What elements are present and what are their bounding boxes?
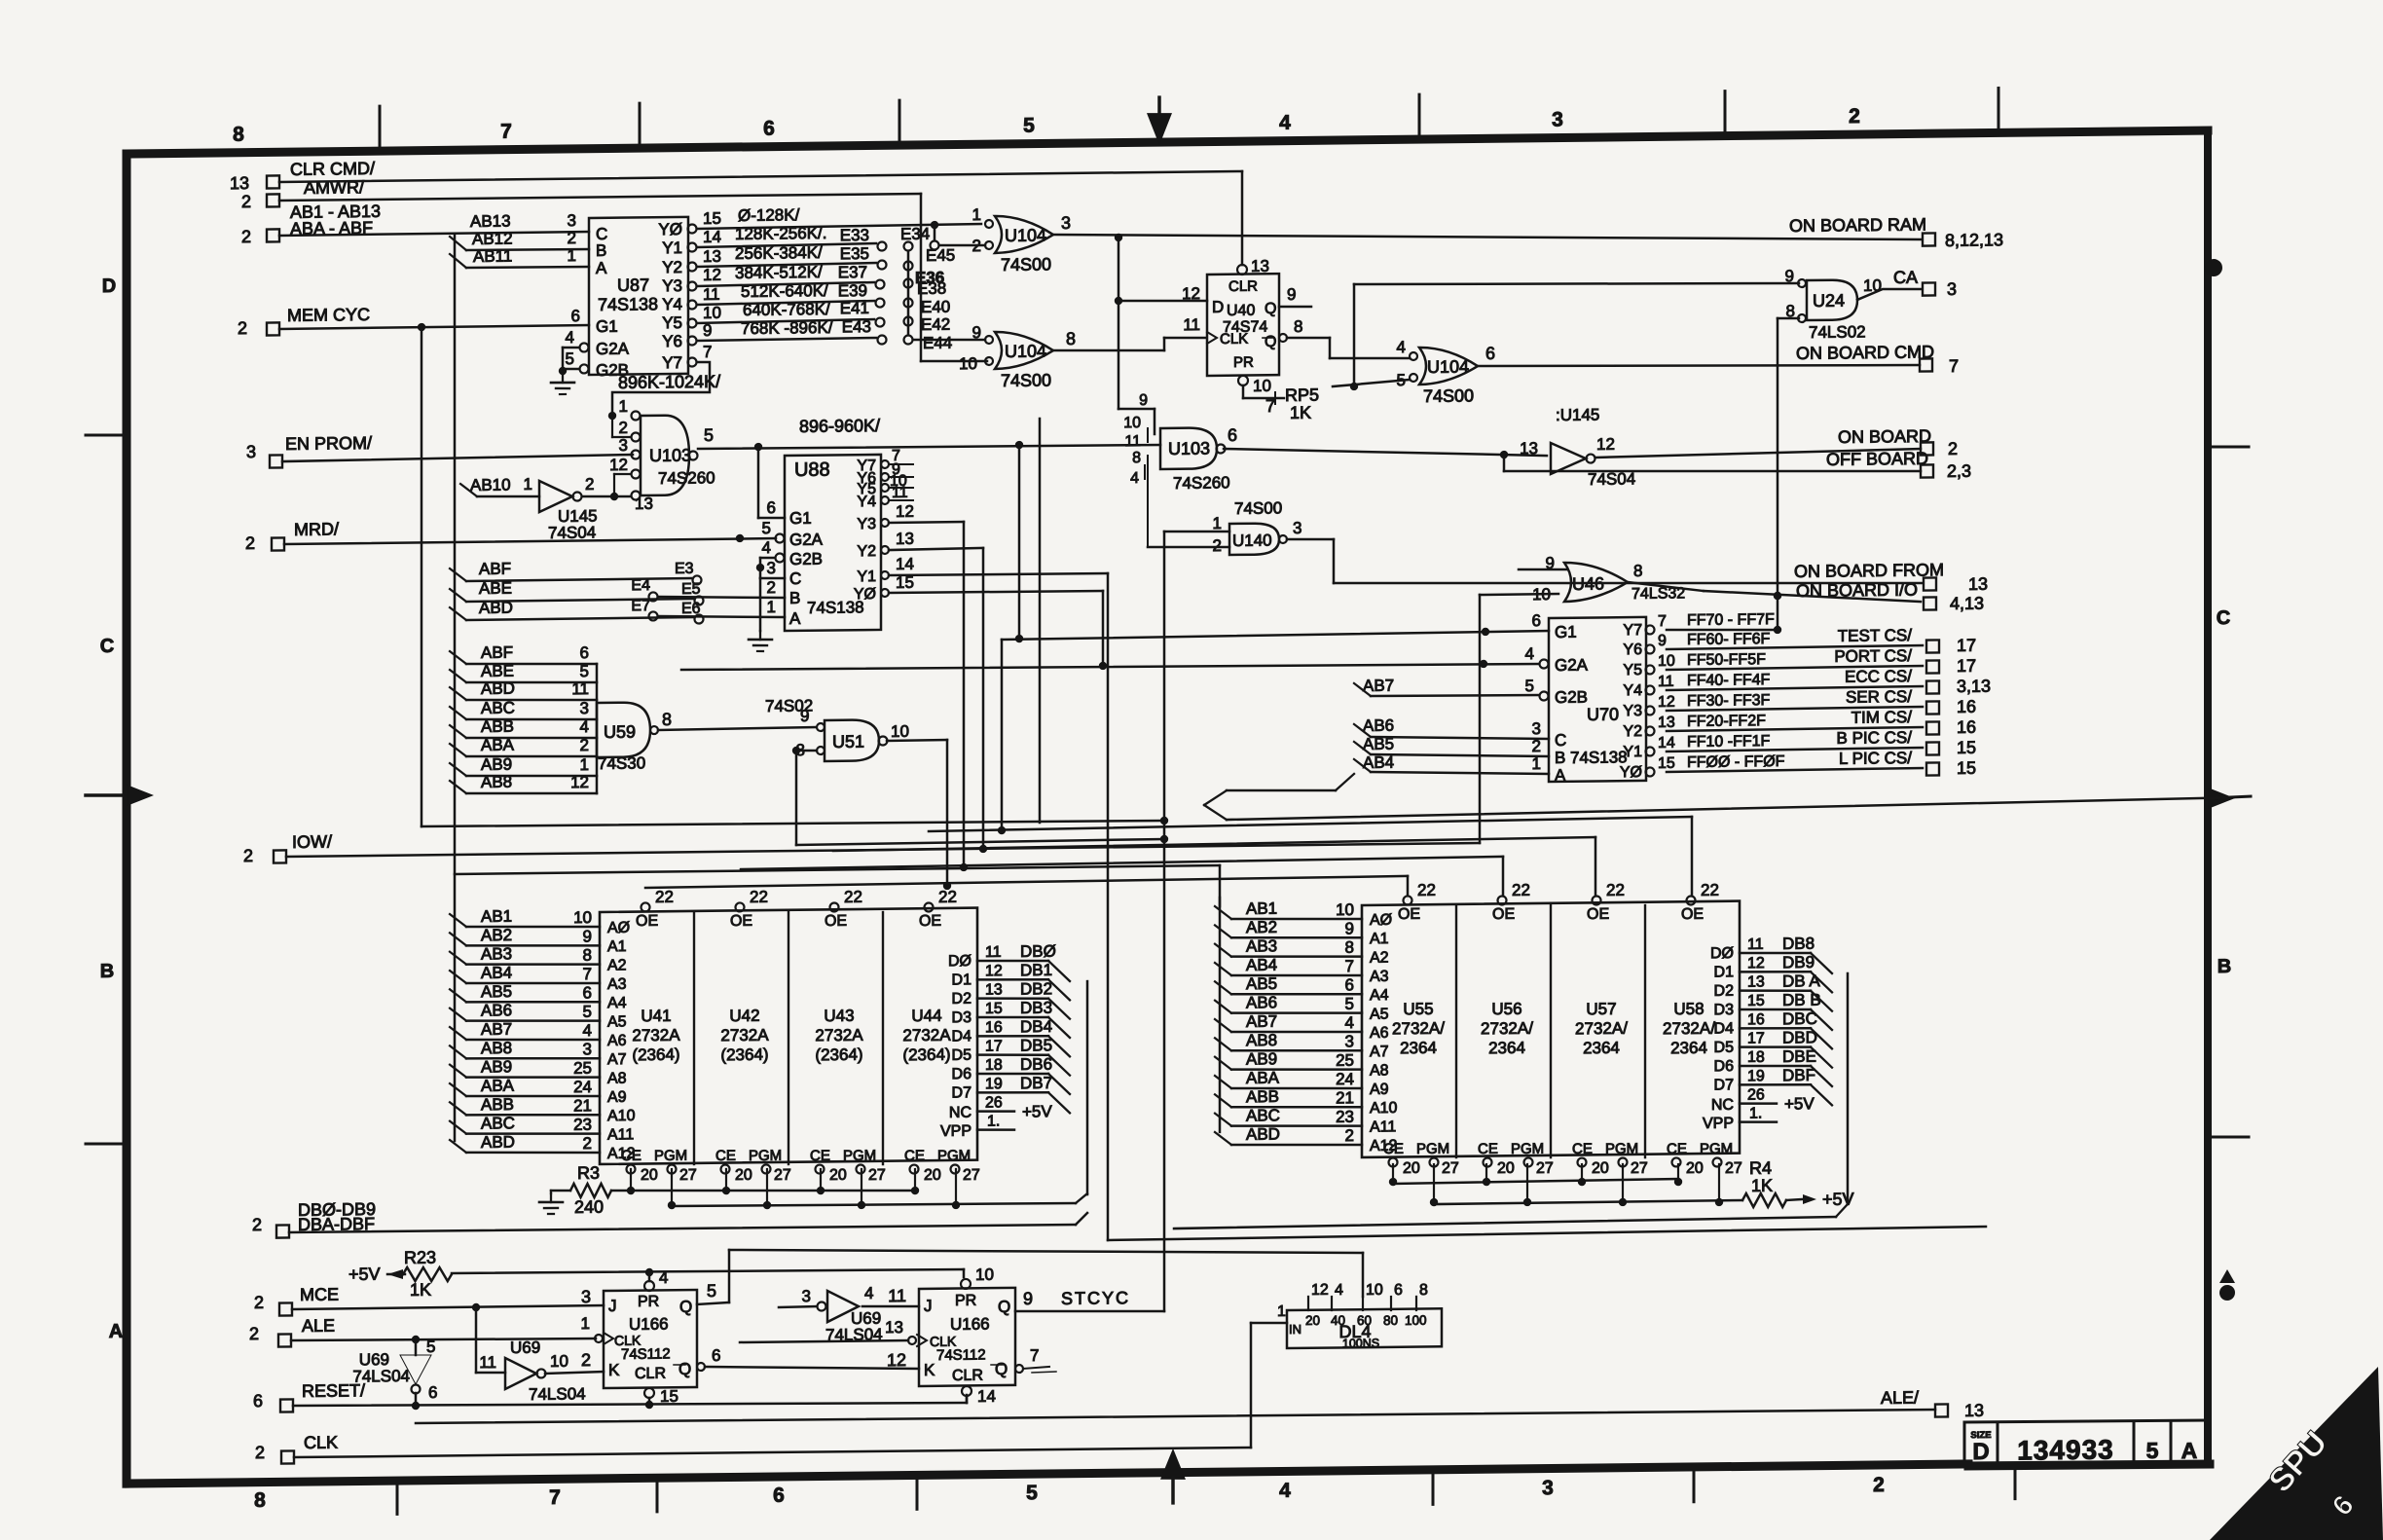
- svg-text:G1: G1: [596, 317, 618, 336]
- svg-text:4: 4: [864, 1284, 873, 1302]
- svg-text:10: 10: [550, 1352, 568, 1371]
- svg-text:B: B: [1555, 749, 1565, 767]
- svg-text:YØ: YØ: [658, 220, 682, 238]
- svg-text:26: 26: [985, 1094, 1003, 1111]
- svg-text:DØ: DØ: [948, 953, 972, 970]
- svg-text:A9: A9: [1370, 1082, 1389, 1098]
- svg-text:1K: 1K: [1751, 1176, 1773, 1195]
- svg-text:A6: A6: [1370, 1025, 1389, 1042]
- wire left bank PGM trunk: [672, 1201, 1076, 1207]
- svg-text:5: 5: [566, 349, 574, 368]
- svg-text:20: 20: [641, 1167, 658, 1184]
- wire Y1 long vertical: [889, 573, 1108, 576]
- svg-text:3: 3: [802, 1287, 811, 1305]
- title block drawing number 134933: [2133, 1421, 2136, 1464]
- svg-text:7: 7: [1345, 957, 1354, 975]
- svg-text:B PIC CS/: B PIC CS/: [1837, 728, 1913, 748]
- svg-text:640K-768K/: 640K-768K/: [743, 300, 830, 319]
- wire U166a Q to DL4 tap: [728, 1250, 731, 1302]
- svg-text:1: 1: [581, 1314, 590, 1333]
- svg-text:74S260: 74S260: [658, 468, 715, 488]
- svg-text:27: 27: [774, 1167, 791, 1184]
- svg-text:YØ: YØ: [854, 586, 876, 603]
- svg-text:20: 20: [1686, 1160, 1704, 1177]
- svg-text:1: 1: [972, 205, 981, 224]
- svg-text::U145: :U145: [1556, 406, 1599, 425]
- svg-text:10: 10: [1366, 1282, 1383, 1299]
- svg-text:512K-640K/: 512K-640K/: [741, 281, 828, 301]
- svg-text:13: 13: [1747, 973, 1765, 990]
- svg-text:13: 13: [1964, 1401, 1984, 1420]
- svg-text:6: 6: [580, 643, 589, 662]
- svg-text:ABE: ABE: [479, 579, 512, 598]
- svg-text:DB2: DB2: [1020, 979, 1052, 998]
- decoder U88 74S138: [785, 455, 881, 631]
- svg-text:DØ: DØ: [1710, 945, 1734, 962]
- svg-text:1.: 1.: [987, 1113, 1000, 1129]
- wire OE feed B: [833, 837, 1595, 851]
- svg-text:D: D: [102, 275, 116, 297]
- svg-text:12: 12: [570, 773, 589, 791]
- svg-text:D1: D1: [952, 972, 972, 988]
- svg-text:G1: G1: [1555, 623, 1577, 642]
- wire U69c input: [779, 1306, 817, 1307]
- svg-text:A: A: [789, 609, 801, 628]
- svg-text:E43: E43: [842, 317, 871, 336]
- svg-text:ON BOARD CMD: ON BOARD CMD: [1796, 342, 1934, 363]
- decoder U70 74S138: [1549, 617, 1646, 782]
- svg-text:7: 7: [583, 965, 592, 983]
- svg-text:B: B: [789, 589, 800, 607]
- svg-text:2: 2: [241, 227, 251, 246]
- jumper E45: [934, 225, 936, 240]
- svg-text:OE: OE: [1681, 906, 1704, 923]
- wire U103b out to U145b: [1224, 445, 1547, 459]
- wire U69b out to U166a K: [545, 1372, 604, 1374]
- svg-text:FF70 - FF7F: FF70 - FF7F: [1687, 611, 1775, 629]
- svg-text:10: 10: [1336, 900, 1354, 919]
- svg-text:G2A: G2A: [596, 340, 630, 358]
- svg-text:74LS04: 74LS04: [529, 1384, 586, 1404]
- svg-text:256K-384K/: 256K-384K/: [735, 243, 823, 263]
- svg-text:4: 4: [659, 1268, 668, 1287]
- wire Y0 0-128K/: [697, 224, 981, 229]
- svg-text:AB7: AB7: [481, 1020, 512, 1039]
- svg-text:U166: U166: [629, 1315, 669, 1334]
- svg-text:14: 14: [1658, 735, 1675, 752]
- svg-text:25: 25: [1336, 1051, 1354, 1070]
- svg-text:AB5: AB5: [1363, 735, 1394, 753]
- svg-text:ALE/: ALE/: [1881, 1388, 1919, 1408]
- svg-text:L PIC CS/: L PIC CS/: [1839, 749, 1912, 768]
- svg-text:6: 6: [1394, 1282, 1403, 1299]
- svg-text:14: 14: [896, 555, 914, 573]
- wire U70 G1 feed: [1002, 631, 1549, 640]
- svg-text:A11: A11: [1370, 1118, 1396, 1135]
- zone arrow right: [2208, 788, 2235, 809]
- svg-text:22: 22: [1606, 881, 1625, 899]
- svg-text:OE: OE: [1492, 906, 1515, 923]
- pin OE chip U56: [1498, 896, 1507, 904]
- svg-text:3: 3: [568, 211, 576, 230]
- svg-text:U43: U43: [824, 1007, 854, 1025]
- wire vertical to U103b pin9: [1118, 301, 1120, 409]
- svg-text:U88: U88: [794, 459, 830, 481]
- svg-text:23: 23: [573, 1116, 592, 1134]
- svg-text:PGM: PGM: [1511, 1141, 1544, 1157]
- svg-text:AB4: AB4: [1246, 956, 1277, 974]
- svg-text:A7: A7: [607, 1051, 627, 1068]
- svg-text:U46: U46: [1572, 574, 1604, 594]
- svg-text:A: A: [596, 259, 607, 277]
- svg-text:74S00: 74S00: [1001, 254, 1051, 275]
- flip-flop U40 74S74: [1207, 274, 1279, 376]
- zone tick marks bottom: [396, 1481, 399, 1514]
- svg-text:C: C: [1555, 731, 1566, 750]
- svg-text:CE: CE: [621, 1148, 642, 1164]
- svg-text:A8: A8: [607, 1070, 627, 1086]
- svg-text:AB5: AB5: [481, 982, 512, 1001]
- svg-text:24: 24: [1336, 1070, 1354, 1088]
- svg-text:U42: U42: [729, 1007, 759, 1025]
- pin OE chip U42: [736, 902, 745, 911]
- svg-text:7: 7: [549, 1486, 561, 1509]
- svg-text:AB4: AB4: [481, 964, 512, 982]
- node OFF BOARD output connector: [1921, 464, 1933, 477]
- wire DBA-F return trunk: [1108, 1227, 1986, 1240]
- svg-text:Y4: Y4: [1623, 682, 1642, 699]
- svg-text:A3: A3: [1370, 969, 1389, 985]
- svg-text:OE: OE: [730, 913, 752, 930]
- zone ticks left: [86, 433, 126, 437]
- svg-text:27: 27: [963, 1167, 980, 1184]
- svg-text:6: 6: [1345, 975, 1354, 994]
- svg-text:11: 11: [479, 1353, 496, 1372]
- svg-text:D2: D2: [952, 991, 972, 1008]
- svg-text:16: 16: [985, 1019, 1003, 1036]
- svg-text:DB7: DB7: [1020, 1074, 1052, 1092]
- wire U166a Qbar to U166b K: [705, 1364, 919, 1371]
- wire U103 pins 12-13 tie: [614, 473, 631, 476]
- svg-text:3: 3: [1293, 519, 1301, 537]
- delay line DL4 100NS: [1287, 1308, 1442, 1348]
- svg-text:U87: U87: [617, 275, 649, 295]
- zone arrow bottom: [1160, 1448, 1186, 1480]
- svg-text:10: 10: [703, 304, 721, 322]
- wire ALE/ to connector: [416, 1406, 1935, 1426]
- svg-text:5: 5: [1345, 995, 1354, 1013]
- wire address bus to AB13/C: [279, 232, 589, 236]
- wire vertical mesh x1068: [1039, 419, 1042, 823]
- svg-text:DBE: DBE: [1782, 1047, 1816, 1066]
- svg-text:16: 16: [1747, 1011, 1765, 1028]
- wire address bus vertical trunk: [454, 235, 457, 1141]
- svg-text:PGM: PGM: [1416, 1141, 1449, 1157]
- svg-text:A10: A10: [1370, 1100, 1398, 1117]
- svg-text:20: 20: [924, 1167, 941, 1184]
- svg-text:12: 12: [985, 963, 1003, 979]
- pin OE chip U57: [1593, 896, 1601, 904]
- svg-text:2: 2: [238, 318, 247, 338]
- wire G2A G2B tie: [562, 348, 565, 374]
- svg-text:7: 7: [500, 121, 512, 143]
- svg-text:18: 18: [985, 1057, 1003, 1074]
- svg-text:27: 27: [679, 1167, 697, 1184]
- wire U166b CLK input: [740, 1340, 908, 1342]
- right EPROM bank U55-U58: [1362, 901, 1740, 1157]
- svg-text:3: 3: [767, 559, 776, 577]
- svg-text:1K: 1K: [1290, 403, 1311, 422]
- svg-text:G2B: G2B: [1555, 688, 1588, 707]
- svg-text:A1: A1: [1370, 931, 1389, 947]
- svg-text:AMWR/: AMWR/: [304, 177, 364, 198]
- svg-text:5: 5: [2146, 1438, 2159, 1463]
- svg-text:3: 3: [1345, 1032, 1354, 1050]
- svg-text:20: 20: [1305, 1313, 1320, 1328]
- svg-text:8: 8: [1132, 450, 1141, 466]
- svg-text:PR: PR: [1233, 354, 1254, 371]
- svg-text:20: 20: [1403, 1160, 1420, 1177]
- svg-text:Y2: Y2: [662, 258, 682, 276]
- svg-text:3: 3: [1542, 1477, 1554, 1499]
- wire left bank CE trunk: [611, 1188, 915, 1194]
- svg-text:8: 8: [662, 710, 672, 729]
- svg-text:74S00: 74S00: [1001, 370, 1051, 390]
- svg-text:A8: A8: [1370, 1062, 1389, 1079]
- svg-text:OE: OE: [1587, 906, 1609, 923]
- svg-text:D4: D4: [952, 1028, 972, 1045]
- svg-text:E37: E37: [838, 263, 867, 281]
- svg-text:AB13: AB13: [470, 212, 511, 231]
- svg-text:DBC: DBC: [1782, 1009, 1817, 1028]
- pin U40 CLR bubble: [1237, 265, 1247, 275]
- svg-text:PR: PR: [955, 1293, 976, 1309]
- svg-text:14: 14: [977, 1387, 996, 1406]
- svg-text:Q: Q: [1265, 334, 1276, 350]
- svg-text:U166: U166: [950, 1315, 990, 1334]
- svg-text:13: 13: [703, 247, 721, 266]
- svg-text:ABC: ABC: [481, 1114, 515, 1132]
- svg-text:U140: U140: [1232, 532, 1272, 550]
- svg-text:10: 10: [1123, 415, 1141, 431]
- svg-text:8: 8: [1294, 317, 1302, 336]
- wire U145 out to U103 pin13: [582, 495, 631, 496]
- svg-text:ABD: ABD: [479, 599, 513, 617]
- svg-text:STCYC: STCYC: [1061, 1288, 1130, 1308]
- svg-text:E40: E40: [921, 298, 950, 316]
- svg-text:3,13: 3,13: [1957, 677, 1991, 696]
- svg-text:+5V: +5V: [348, 1265, 381, 1284]
- svg-text:Y6: Y6: [1623, 642, 1642, 658]
- svg-text:D5: D5: [952, 1047, 972, 1064]
- pin U166b CLR bubble: [962, 1386, 972, 1396]
- wire U46 output ON BOARD I/O: [1628, 581, 1704, 592]
- svg-text:G1: G1: [789, 509, 812, 528]
- svg-text:J: J: [924, 1297, 932, 1315]
- wire U51 out to OE feed: [887, 739, 947, 742]
- svg-text:15: 15: [1658, 755, 1675, 772]
- pin OE chip U41: [642, 902, 650, 911]
- svg-text:PGM: PGM: [1700, 1141, 1733, 1157]
- svg-text:CE: CE: [904, 1148, 925, 1164]
- svg-text:74S138: 74S138: [598, 294, 658, 314]
- svg-text:2: 2: [252, 1215, 262, 1234]
- wire Y7 896K-1024K/: [612, 362, 710, 416]
- svg-text:2364: 2364: [1400, 1039, 1437, 1057]
- svg-text:D: D: [1212, 298, 1224, 316]
- svg-text:2732A: 2732A: [632, 1026, 680, 1045]
- svg-text:A2: A2: [1370, 949, 1389, 966]
- svg-text:U103: U103: [1168, 439, 1210, 458]
- svg-text:13: 13: [985, 981, 1003, 998]
- pin U40 CLK triangle: [1207, 332, 1217, 344]
- svg-text:A: A: [109, 1321, 123, 1342]
- svg-text:2: 2: [1849, 105, 1860, 128]
- svg-text:27: 27: [1442, 1160, 1459, 1177]
- svg-text:2: 2: [619, 419, 628, 437]
- svg-text:MCE: MCE: [300, 1285, 339, 1304]
- zone arrow left: [127, 785, 154, 806]
- svg-text:Y4: Y4: [662, 295, 682, 313]
- svg-text:2: 2: [243, 846, 253, 865]
- svg-text:13: 13: [896, 530, 914, 548]
- wire DB8-F bus return: [1836, 1204, 1848, 1217]
- zone ticks right: [2208, 445, 2249, 449]
- svg-text:74LS04: 74LS04: [352, 1367, 410, 1386]
- gate U24 74LS02 NOR: [1807, 279, 1857, 320]
- svg-text:PGM: PGM: [1605, 1141, 1638, 1157]
- svg-text:AB11: AB11: [473, 247, 512, 266]
- svg-text:8,12,13: 8,12,13: [1945, 230, 2003, 250]
- svg-text:896K-1024K/: 896K-1024K/: [618, 372, 720, 392]
- svg-text:74S00: 74S00: [1234, 498, 1282, 518]
- svg-text:ABA: ABA: [481, 1077, 515, 1095]
- wire EN PROM/ to U103 pin3: [282, 455, 633, 461]
- svg-text:E44: E44: [923, 334, 952, 352]
- svg-text:2: 2: [583, 1134, 592, 1153]
- svg-text:5: 5: [707, 1281, 716, 1301]
- svg-text:10: 10: [1532, 585, 1551, 604]
- svg-text:5: 5: [1023, 115, 1035, 137]
- svg-text:14: 14: [703, 228, 721, 246]
- wire MEM CYC vertical: [421, 327, 423, 826]
- svg-text:AB1: AB1: [1246, 899, 1277, 918]
- svg-text:Y1: Y1: [662, 238, 682, 257]
- svg-text:3: 3: [1532, 719, 1541, 738]
- svg-text:1: 1: [1213, 514, 1222, 532]
- wire OFF BOARD: [1503, 455, 1506, 471]
- svg-text:2732A/: 2732A/: [1481, 1019, 1533, 1039]
- wire MEM CYC OE trunk: [422, 818, 1164, 828]
- pin U88 G2A bubble: [776, 533, 785, 542]
- svg-text:3: 3: [1061, 213, 1071, 233]
- svg-text:11: 11: [985, 944, 1002, 961]
- svg-text:ABD: ABD: [481, 1133, 515, 1152]
- svg-text:11: 11: [703, 285, 720, 304]
- svg-text:DB1: DB1: [1020, 961, 1052, 979]
- svg-text:11: 11: [1124, 433, 1141, 450]
- svg-text:ABB: ABB: [481, 1095, 514, 1114]
- pin U87 G2B bubble: [580, 364, 589, 373]
- gate U104c 74S00: [1419, 347, 1478, 385]
- svg-text:DBF: DBF: [1782, 1066, 1815, 1084]
- svg-text:E39: E39: [838, 281, 867, 300]
- pin U166a PR bubble: [644, 1281, 654, 1291]
- svg-text:A9: A9: [607, 1089, 627, 1106]
- svg-text:10: 10: [573, 908, 592, 927]
- svg-text:10: 10: [975, 1265, 994, 1284]
- svg-text:1K: 1K: [410, 1280, 431, 1300]
- svg-text:Y3: Y3: [1623, 703, 1642, 719]
- zone tick marks top: [379, 106, 382, 151]
- jumper E38: [904, 278, 913, 287]
- svg-text:134933: 134933: [2017, 1434, 2113, 1465]
- wire to U104c pin5: [1333, 380, 1410, 386]
- svg-text:A2: A2: [607, 957, 627, 973]
- EPROM data bus vertical: [1086, 981, 1089, 1194]
- svg-text:896-960K/: 896-960K/: [799, 416, 880, 436]
- svg-text:17: 17: [985, 1038, 1003, 1054]
- svg-text:CLK: CLK: [304, 1433, 338, 1452]
- wire RESET/ to U166 CLR: [293, 1398, 967, 1411]
- svg-text:74S260: 74S260: [1173, 473, 1230, 493]
- svg-text:8: 8: [583, 946, 592, 965]
- wire U140 in2: [1148, 546, 1229, 548]
- svg-text:U59: U59: [604, 722, 636, 742]
- svg-text:A: A: [2181, 1438, 2198, 1463]
- inverter U69a 74LS04 (ALE): [400, 1355, 431, 1385]
- svg-text:3: 3: [246, 442, 256, 461]
- svg-text:2: 2: [1345, 1126, 1354, 1145]
- svg-text:27: 27: [868, 1167, 886, 1184]
- svg-text:U69: U69: [510, 1338, 540, 1357]
- svg-text:ABF: ABF: [479, 560, 511, 578]
- zone letter D marker right: [2205, 259, 2222, 276]
- wire Y0 to U70 G2A: [889, 591, 1103, 594]
- svg-text:AB9: AB9: [481, 755, 512, 774]
- svg-text:CA: CA: [1893, 268, 1918, 287]
- wire STCYC vertical: [1163, 532, 1166, 1311]
- svg-text:10: 10: [1658, 653, 1675, 670]
- svg-text:DB4: DB4: [1020, 1017, 1052, 1036]
- svg-text:4: 4: [580, 717, 589, 736]
- svg-text:2: 2: [581, 1350, 591, 1370]
- pin U166b CLK: [908, 1337, 916, 1344]
- node ON BOARD output connector: [1921, 442, 1933, 455]
- svg-text:5: 5: [1525, 677, 1534, 695]
- svg-text:10: 10: [1253, 377, 1271, 395]
- wire U103 pins 1-2 tie: [608, 412, 616, 420]
- svg-text:B: B: [596, 241, 606, 260]
- pin U70 G2B bubble: [1540, 691, 1549, 700]
- svg-text:2732A/: 2732A/: [1392, 1019, 1445, 1039]
- svg-text:8: 8: [1633, 562, 1642, 580]
- pins U87 Y0-Y7 bubbles: [688, 224, 697, 233]
- svg-text:15: 15: [660, 1387, 678, 1406]
- svg-text:D7: D7: [1714, 1077, 1735, 1093]
- svg-text:6: 6: [763, 118, 775, 140]
- svg-text:11: 11: [1183, 315, 1200, 334]
- svg-text:A3: A3: [607, 976, 627, 993]
- svg-text:CLR: CLR: [1228, 278, 1258, 295]
- wire Y2 256K-384K/ jumper E35: [697, 263, 876, 267]
- wire U24 pin8 from Y7 net: [1778, 316, 1799, 319]
- svg-text:(2364): (2364): [815, 1045, 862, 1065]
- svg-text:FF20-FF2F: FF20-FF2F: [1687, 713, 1766, 730]
- gate U46 74LS32 OR: [1564, 562, 1628, 602]
- svg-text:DB5: DB5: [1020, 1036, 1052, 1054]
- wire U51 in8: [792, 747, 800, 754]
